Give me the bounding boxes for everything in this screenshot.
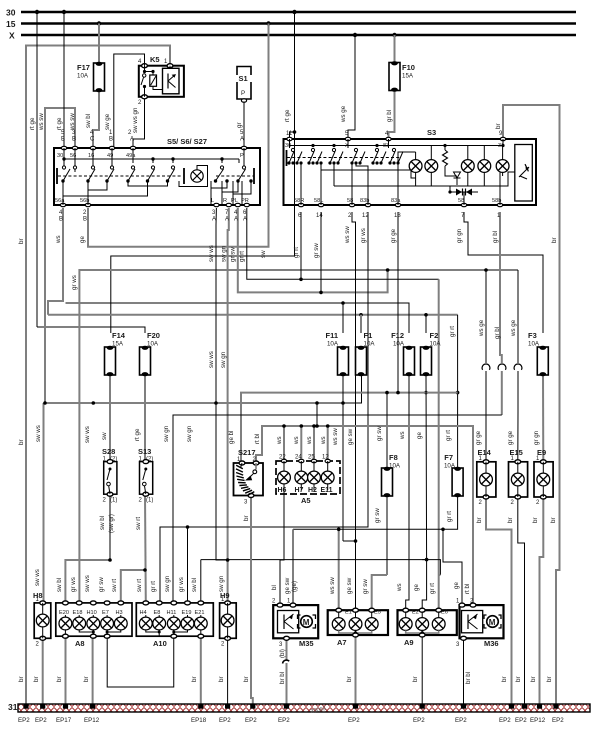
svg-text:br: br [191, 676, 198, 682]
svg-text:sw bl: sw bl [191, 578, 198, 592]
svg-text:sw: sw [101, 432, 108, 440]
svg-text:2: 2 [139, 498, 143, 504]
svg-text:ge: ge [413, 584, 420, 591]
svg-text:gr ws: gr ws [178, 577, 185, 592]
svg-text:ws: ws [55, 235, 62, 244]
svg-text:sw rt: sw rt [111, 579, 118, 592]
svg-text:H3: H3 [116, 610, 123, 616]
svg-text:12: 12 [322, 455, 329, 461]
svg-text:E20: E20 [59, 610, 69, 616]
svg-text:br: br [218, 676, 225, 682]
svg-text:E5: E5 [374, 610, 381, 616]
svg-text:ws ge: ws ge [510, 319, 517, 337]
svg-text:A: A [130, 137, 134, 143]
svg-text:ws sw: ws sw [329, 577, 336, 595]
svg-text:gr gn: gr gn [533, 430, 540, 445]
svg-text:(1): (1) [146, 498, 153, 504]
svg-text:gr: gr [236, 122, 243, 128]
svg-text:2: 2 [511, 500, 515, 506]
svg-text:M35: M35 [299, 639, 314, 648]
svg-text:EP2: EP2 [348, 717, 360, 724]
svg-text:49a: 49a [126, 153, 136, 159]
svg-text:gr gn: gr gn [456, 228, 463, 243]
svg-text:B: B [83, 217, 87, 223]
svg-text:rt ge: rt ge [284, 109, 291, 122]
svg-text:EP2: EP2 [552, 717, 564, 724]
svg-text:br: br [495, 123, 502, 129]
svg-text:gr sw: gr sw [376, 426, 383, 441]
svg-text:sw bl: sw bl [99, 516, 106, 530]
svg-text:P: P [240, 153, 244, 159]
svg-text:EP2: EP2 [413, 717, 425, 724]
svg-text:12: 12 [362, 213, 369, 219]
svg-text:sw: sw [260, 250, 267, 258]
svg-text:sw ge: sw ge [104, 113, 111, 130]
svg-text:A9: A9 [404, 638, 414, 647]
svg-text:5: 5 [240, 130, 244, 136]
svg-text:gr bl: gr bl [492, 231, 499, 243]
svg-text:sw ws: sw ws [208, 351, 215, 368]
svg-text:10A: 10A [430, 341, 442, 348]
svg-text:EP2: EP2 [18, 717, 30, 724]
svg-text:ge: ge [79, 236, 86, 243]
svg-text:br: br [18, 676, 25, 682]
svg-text:24: 24 [295, 455, 302, 461]
svg-text:F2: F2 [430, 331, 439, 340]
svg-text:S28: S28 [102, 447, 115, 456]
svg-text:E2: E2 [412, 610, 419, 616]
svg-text:F10: F10 [402, 63, 415, 72]
svg-text:gr bl: gr bl [386, 110, 393, 122]
svg-text:2: 2 [348, 213, 352, 219]
svg-text:ws sw: ws sw [332, 428, 339, 446]
svg-text:EP2: EP2 [499, 717, 511, 724]
svg-text:gr ge: gr ge [475, 430, 482, 445]
svg-text:A: A [243, 217, 247, 223]
svg-text:2: 2 [272, 599, 276, 605]
svg-text:X: X [9, 31, 15, 41]
svg-text:E19: E19 [182, 610, 192, 616]
svg-text:gr sw: gr sw [374, 508, 381, 523]
svg-text:B: B [61, 137, 65, 143]
svg-text:ws ge: ws ge [340, 105, 347, 123]
svg-text:sw gn: sw gn [186, 425, 193, 442]
svg-text:gr ws: gr ws [360, 228, 367, 243]
svg-text:br: br [83, 676, 90, 682]
svg-text:br bl: br bl [465, 672, 472, 684]
svg-text:ws: ws [399, 431, 406, 440]
svg-text:sw ws: sw ws [84, 426, 91, 443]
svg-text:EP2: EP2 [278, 717, 290, 724]
svg-text:gr rt: gr rt [239, 251, 246, 262]
svg-text:br: br [501, 676, 508, 682]
svg-text:bl: bl [271, 585, 278, 590]
svg-text:10A: 10A [389, 463, 401, 470]
svg-text:A5: A5 [301, 496, 311, 505]
svg-text:15A: 15A [112, 341, 124, 348]
svg-text:2: 2 [479, 500, 483, 506]
svg-text:F20: F20 [147, 331, 160, 340]
svg-text:gr sw: gr sw [362, 579, 369, 594]
svg-text:rt ge: rt ge [134, 428, 141, 441]
svg-text:S5/ S6/ S27: S5/ S6/ S27 [167, 137, 207, 146]
svg-text:br: br [546, 676, 553, 682]
svg-text:sw bl: sw bl [56, 578, 63, 592]
svg-text:PL: PL [231, 198, 238, 204]
svg-text:br: br [18, 238, 25, 244]
svg-text:83a: 83a [391, 198, 401, 204]
svg-text:gr rt: gr rt [449, 326, 456, 337]
svg-text:10A: 10A [147, 341, 159, 348]
svg-text:13: 13 [394, 213, 401, 219]
svg-text:K5: K5 [150, 55, 160, 64]
svg-text:F1: F1 [364, 331, 373, 340]
svg-text:F17: F17 [77, 63, 90, 72]
svg-text:EP2: EP2 [515, 717, 527, 724]
svg-text:B: B [109, 137, 113, 143]
svg-text:rt bl: rt bl [464, 584, 471, 594]
svg-text:F7: F7 [444, 453, 453, 462]
svg-text:br: br [243, 676, 250, 682]
svg-text:A: A [212, 217, 216, 223]
svg-text:(ge): (ge) [291, 581, 298, 592]
svg-text:EP2: EP2 [35, 717, 47, 724]
svg-text:2: 2 [83, 210, 87, 216]
svg-text:ws sw: ws sw [38, 113, 45, 131]
svg-text:br: br [33, 676, 40, 682]
svg-text:gr ge: gr ge [507, 430, 514, 445]
svg-text:ge: ge [453, 582, 460, 589]
svg-text:br: br [56, 676, 63, 682]
svg-text:11: 11 [286, 131, 293, 137]
svg-text:gr ws: gr ws [71, 275, 78, 290]
svg-text:58: 58 [458, 198, 464, 204]
svg-text:2: 2 [36, 642, 40, 648]
svg-text:56a: 56a [55, 198, 65, 204]
svg-text:gr rt: gr rt [446, 511, 453, 522]
svg-text:E1: E1 [345, 610, 352, 616]
svg-text:3: 3 [456, 642, 460, 648]
svg-text:ws sw: ws sw [69, 113, 76, 131]
svg-text:S217: S217 [238, 448, 256, 457]
svg-text:3: 3 [244, 500, 248, 506]
svg-text:rt ge: rt ge [29, 117, 36, 130]
svg-text:C: C [90, 137, 95, 143]
svg-text:br: br [243, 515, 250, 521]
svg-text:F8: F8 [389, 453, 398, 462]
svg-text:br: br [507, 517, 514, 523]
svg-text:15A: 15A [402, 73, 414, 80]
svg-text:br: br [476, 517, 483, 523]
svg-text:F14: F14 [112, 331, 126, 340]
svg-text:br: br [346, 676, 353, 682]
svg-text:ws: ws [293, 436, 300, 445]
svg-text:22: 22 [279, 455, 286, 461]
svg-text:H2: H2 [308, 487, 317, 494]
svg-text:sw gn: sw gn [163, 425, 170, 442]
svg-text:ge: ge [416, 432, 423, 439]
svg-text:ws: ws [276, 436, 283, 445]
svg-text:H10: H10 [87, 610, 97, 616]
svg-text:sw gn: sw gn [218, 575, 225, 592]
svg-text:10A: 10A [327, 341, 339, 348]
svg-text:(sw gr): (sw gr) [108, 514, 115, 533]
svg-text:gr ws: gr ws [70, 577, 77, 592]
svg-text:EP12: EP12 [84, 717, 100, 724]
svg-text:E21: E21 [195, 610, 205, 616]
svg-text:10A: 10A [393, 341, 405, 348]
svg-text:rt bl: rt bl [254, 434, 261, 444]
svg-text:14: 14 [316, 213, 323, 219]
svg-text:sw gn: sw gn [220, 351, 227, 368]
svg-text:ws sw: ws sw [344, 226, 351, 244]
svg-text:A8: A8 [75, 639, 85, 648]
svg-text:ge sw: ge sw [346, 577, 353, 594]
svg-text:gr bl: gr bl [494, 327, 501, 339]
svg-text:S13: S13 [138, 447, 151, 456]
svg-text:E18: E18 [73, 610, 83, 616]
svg-text:ws: ws [320, 436, 327, 445]
svg-text:31: 31 [8, 702, 18, 712]
svg-text:H6: H6 [278, 487, 287, 494]
svg-text:rt ge: rt ge [56, 117, 63, 130]
svg-text:gr rt: gr rt [293, 247, 300, 258]
svg-text:br: br [532, 517, 539, 523]
svg-text:S1: S1 [239, 74, 248, 83]
svg-text:F12: F12 [391, 331, 404, 340]
svg-text:sw rt: sw rt [136, 579, 143, 592]
svg-text:25: 25 [308, 455, 315, 461]
svg-text:ge sw: ge sw [347, 428, 354, 445]
svg-text:E6: E6 [441, 610, 448, 616]
svg-text:br: br [412, 676, 419, 682]
svg-text:A10: A10 [153, 639, 167, 648]
svg-text:M: M [303, 618, 310, 627]
svg-text:EP2: EP2 [455, 717, 467, 724]
svg-text:ge bl: ge bl [228, 431, 235, 444]
svg-text:sw ws: sw ws [35, 425, 42, 442]
svg-text:ge sw: ge sw [284, 577, 291, 594]
svg-text:sw rt: sw rt [135, 517, 142, 530]
svg-text:(1): (1) [110, 498, 117, 504]
svg-text:gr sw: gr sw [313, 243, 320, 258]
svg-text:E7: E7 [102, 610, 109, 616]
svg-text:E11: E11 [321, 487, 333, 494]
svg-text:br: br [18, 439, 25, 445]
svg-text:sw ws gn: sw ws gn [132, 107, 139, 133]
svg-text:10A: 10A [444, 463, 456, 470]
svg-text:br: br [550, 517, 557, 523]
svg-text:3: 3 [279, 642, 283, 648]
svg-text:F3: F3 [528, 331, 537, 340]
svg-text:br: br [530, 676, 537, 682]
svg-text:gr sw: gr sw [98, 577, 105, 592]
svg-text:(bl): (bl) [279, 649, 286, 658]
svg-text:sw ws: sw ws [84, 575, 91, 592]
svg-text:A: A [240, 137, 244, 143]
svg-text:EP17: EP17 [56, 717, 72, 724]
svg-text:H7: H7 [295, 487, 304, 494]
svg-text:gr rt: gr rt [429, 583, 436, 594]
svg-text:ws: ws [306, 436, 313, 445]
svg-text:A7: A7 [337, 638, 347, 647]
svg-text:sw ws: sw ws [208, 245, 215, 262]
svg-text:B: B [72, 137, 76, 143]
svg-text:P: P [241, 90, 245, 97]
svg-text:30: 30 [57, 153, 63, 159]
svg-text:30: 30 [6, 8, 16, 18]
svg-text:M: M [489, 618, 496, 627]
svg-text:H11: H11 [167, 610, 177, 616]
svg-text:ws ge: ws ge [478, 319, 485, 337]
svg-text:10A: 10A [364, 341, 376, 348]
svg-text:M36: M36 [484, 639, 499, 648]
svg-text:br: br [515, 676, 522, 682]
svg-text:10A: 10A [528, 341, 540, 348]
svg-text:br: br [551, 237, 558, 243]
svg-text:gr ge: gr ge [390, 228, 397, 243]
svg-text:sw bl: sw bl [85, 114, 92, 128]
svg-text:sw ws: sw ws [34, 569, 41, 586]
svg-text:2: 2 [536, 500, 540, 506]
svg-text:gr rt: gr rt [445, 430, 452, 441]
svg-text:B: B [59, 217, 63, 223]
svg-text:2: 2 [103, 498, 107, 504]
svg-text:br bl: br bl [279, 672, 286, 684]
svg-text:gr sw: gr sw [230, 247, 237, 262]
svg-text:sw gn: sw gn [164, 575, 171, 592]
svg-text:2: 2 [138, 100, 142, 106]
svg-text:A: A [225, 217, 229, 223]
svg-text:15: 15 [6, 19, 16, 29]
svg-text:EP2: EP2 [245, 717, 257, 724]
svg-text:sw gn: sw gn [221, 245, 228, 262]
svg-text:58L: 58L [314, 198, 323, 204]
svg-text:3: 3 [212, 210, 216, 216]
svg-text:gr rt: gr rt [150, 581, 157, 592]
svg-text:A: A [234, 217, 238, 223]
svg-text:S3: S3 [427, 128, 436, 137]
svg-text:R: R [223, 198, 227, 204]
svg-text:2: 2 [221, 642, 225, 648]
svg-text:10A: 10A [77, 73, 89, 80]
svg-text:58R: 58R [294, 198, 304, 204]
svg-text:EP2: EP2 [219, 717, 231, 724]
svg-text:EP18: EP18 [191, 717, 207, 724]
svg-text:F11: F11 [325, 331, 338, 340]
svg-text:ws: ws [396, 583, 403, 592]
svg-text:EP12: EP12 [530, 717, 546, 724]
